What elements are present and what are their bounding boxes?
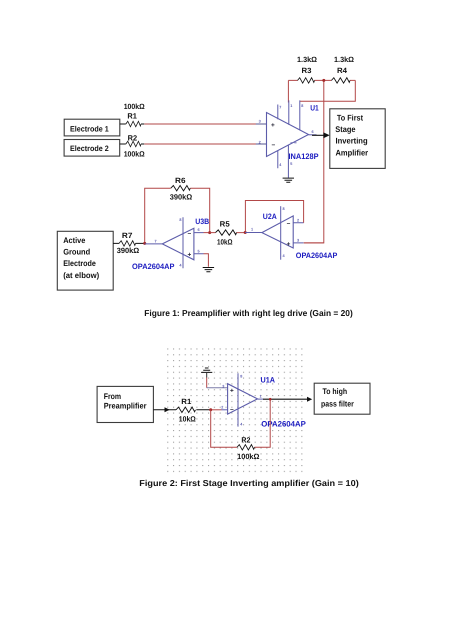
svg-text:−: −: [230, 407, 234, 414]
svg-text:R7: R7: [122, 231, 133, 240]
svg-text:U2A: U2A: [263, 212, 277, 221]
svg-text:+: +: [271, 122, 275, 129]
svg-text:2: 2: [297, 218, 299, 222]
svg-text:To First: To First: [337, 113, 363, 122]
svg-text:1: 1: [260, 394, 262, 398]
svg-text:8: 8: [179, 218, 181, 222]
svg-text:OPA2604AP: OPA2604AP: [132, 262, 175, 271]
svg-text:2: 2: [259, 140, 261, 144]
svg-text:7: 7: [155, 239, 157, 243]
svg-text:1: 1: [290, 104, 292, 108]
svg-text:R2: R2: [241, 436, 250, 445]
svg-text:2: 2: [221, 405, 223, 409]
svg-text:(at elbow): (at elbow): [63, 271, 99, 280]
svg-text:7: 7: [279, 106, 281, 110]
svg-text:100kΩ: 100kΩ: [124, 150, 145, 159]
svg-text:390kΩ: 390kΩ: [170, 193, 193, 202]
svg-text:Electrode: Electrode: [63, 259, 96, 268]
svg-text:To high: To high: [323, 387, 348, 396]
svg-text:+: +: [188, 251, 192, 258]
svg-text:+: +: [230, 388, 234, 395]
svg-text:R3: R3: [302, 66, 312, 75]
svg-text:6: 6: [312, 130, 314, 134]
svg-text:4: 4: [279, 163, 282, 167]
svg-text:Preamplifier: Preamplifier: [104, 401, 148, 410]
svg-text:3: 3: [222, 384, 224, 388]
svg-text:R2: R2: [128, 134, 138, 143]
svg-text:U1A: U1A: [261, 375, 276, 384]
svg-text:OPA2604AP: OPA2604AP: [261, 419, 306, 428]
svg-text:R4: R4: [337, 66, 348, 75]
svg-text:8: 8: [240, 375, 242, 379]
svg-text:+: +: [287, 241, 291, 248]
svg-text:5: 5: [290, 162, 292, 166]
svg-text:5: 5: [198, 249, 200, 253]
svg-text:100kΩ: 100kΩ: [237, 452, 259, 461]
svg-text:10kΩ: 10kΩ: [179, 415, 196, 424]
svg-text:1.3kΩ: 1.3kΩ: [297, 55, 317, 64]
svg-text:Figure 1: Preamplifier with ri: Figure 1: Preamplifier with right leg dr…: [144, 308, 353, 318]
svg-text:U1: U1: [310, 104, 319, 113]
svg-text:−: −: [188, 230, 192, 237]
svg-text:R1: R1: [181, 397, 192, 406]
svg-text:8: 8: [283, 207, 285, 211]
svg-text:R5: R5: [220, 220, 231, 229]
svg-text:Electrode 2: Electrode 2: [70, 144, 109, 153]
svg-text:390kΩ: 390kΩ: [117, 246, 140, 255]
svg-text:1.3kΩ: 1.3kΩ: [334, 55, 354, 64]
svg-text:pass filter: pass filter: [321, 399, 355, 408]
svg-text:From: From: [104, 392, 121, 401]
svg-text:Stage: Stage: [335, 125, 356, 134]
svg-text:8: 8: [301, 104, 303, 108]
svg-text:Active: Active: [63, 236, 86, 245]
svg-text:−: −: [287, 220, 291, 227]
svg-text:10kΩ: 10kΩ: [217, 238, 233, 247]
svg-text:6: 6: [198, 228, 200, 232]
svg-text:100kΩ: 100kΩ: [124, 102, 145, 111]
svg-text:3: 3: [259, 120, 261, 124]
svg-text:Figure 2: First Stage Invertin: Figure 2: First Stage Inverting amplifie…: [139, 478, 359, 488]
svg-text:Electrode 1: Electrode 1: [70, 124, 109, 133]
svg-text:R6: R6: [175, 176, 186, 185]
svg-text:4: 4: [283, 254, 286, 258]
svg-text:1: 1: [251, 228, 253, 232]
svg-text:U3B: U3B: [195, 217, 209, 226]
svg-text:3: 3: [297, 239, 299, 243]
svg-text:INA128P: INA128P: [289, 152, 320, 161]
svg-text:Ground: Ground: [63, 247, 90, 256]
svg-text:OPA2604AP: OPA2604AP: [296, 251, 338, 260]
svg-text:−: −: [272, 142, 276, 149]
svg-text:Inverting: Inverting: [336, 137, 368, 146]
svg-text:R1: R1: [127, 111, 137, 120]
svg-text:Amplifier: Amplifier: [336, 148, 369, 157]
svg-text:4: 4: [179, 264, 182, 268]
